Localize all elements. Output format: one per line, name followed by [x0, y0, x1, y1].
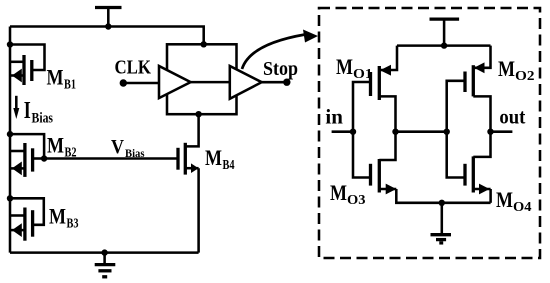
svg-text:M: M: [205, 145, 222, 170]
svg-text:out: out: [499, 105, 525, 129]
svg-text:CLK: CLK: [115, 57, 152, 79]
svg-text:in: in: [325, 105, 343, 129]
svg-text:Stop: Stop: [263, 58, 298, 80]
svg-text:I: I: [24, 98, 31, 124]
svg-text:M: M: [496, 187, 513, 212]
svg-text:Bias: Bias: [125, 146, 145, 160]
svg-text:M: M: [336, 54, 353, 79]
svg-text:O3: O3: [347, 193, 366, 208]
svg-text:B2: B2: [65, 146, 77, 161]
svg-text:O4: O4: [513, 200, 532, 215]
svg-text:M: M: [498, 56, 515, 81]
svg-text:M: M: [47, 133, 64, 158]
svg-text:B4: B4: [223, 158, 235, 173]
svg-text:M: M: [330, 180, 347, 205]
svg-text:Bias: Bias: [32, 111, 54, 127]
svg-text:M: M: [47, 65, 64, 90]
svg-text:B3: B3: [67, 217, 79, 232]
svg-text:B1: B1: [64, 78, 76, 93]
svg-text:O1: O1: [353, 67, 373, 82]
svg-text:M: M: [49, 204, 66, 229]
svg-text:V: V: [111, 137, 124, 158]
svg-text:O2: O2: [515, 69, 535, 84]
